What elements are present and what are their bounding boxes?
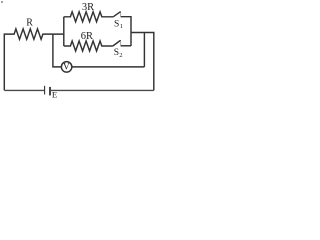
svg-text:1: 1 (120, 23, 123, 30)
svg-text:6R: 6R (81, 31, 93, 42)
svg-text:2: 2 (119, 52, 122, 59)
svg-text:S: S (114, 19, 119, 29)
svg-text:3R: 3R (82, 2, 94, 13)
svg-text:E: E (52, 90, 57, 100)
svg-text:V: V (63, 62, 70, 72)
svg-text:S: S (114, 48, 119, 58)
svg-text:R: R (26, 18, 33, 29)
